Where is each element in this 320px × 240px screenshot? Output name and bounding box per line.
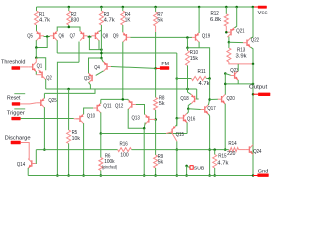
svg-text:4.7k: 4.7k (104, 18, 115, 24)
svg-text:Q9: Q9 (113, 34, 119, 40)
svg-text:Q4: Q4 (94, 65, 100, 71)
transistor Q7 (83, 33, 85, 39)
pin Trigger (14, 108, 25, 110)
wire Q17 emitter up (208, 100, 209, 106)
resistor R4 (122, 7, 124, 11)
wire Q8 collector (98, 40, 100, 49)
transistor Q12 (131, 101, 133, 107)
pin FM (154, 67, 157, 70)
wire trigger to flipflop link (43, 119, 45, 150)
resistor R13 (228, 42, 230, 48)
transistor Q17 (204, 106, 206, 112)
resistor R9 (155, 120, 157, 156)
wire Q16 collector down (186, 122, 188, 133)
svg-text:Q3: Q3 (84, 76, 90, 82)
svg-text:5k: 5k (157, 18, 163, 24)
pin Vcc (258, 6, 267, 9)
svg-text:Q25: Q25 (48, 98, 56, 104)
svg-text:Q16: Q16 (187, 117, 195, 123)
svg-text:R11: R11 (198, 69, 206, 75)
resistor R12 (225, 7, 227, 14)
svg-text:830: 830 (71, 18, 79, 24)
transistor Q4 (106, 63, 108, 69)
svg-text:Q21: Q21 (236, 29, 244, 35)
resistor R11 (177, 78, 192, 80)
wire Q10 emitter to Q11 base (84, 108, 94, 114)
wire Q16 emitter up (187, 109, 188, 114)
svg-text:Trigger: Trigger (7, 110, 25, 116)
wire Q3 collector down (89, 82, 91, 89)
junction rail (154, 6, 157, 9)
wire Q12 collector down (128, 109, 144, 128)
resistor R7 (155, 7, 157, 12)
svg-text:R16: R16 (120, 141, 128, 147)
wire Q13 base to ref (153, 118, 156, 120)
pin SUB (185, 165, 188, 168)
wire Q14 emitter to rail (27, 168, 29, 176)
svg-text:5k: 5k (159, 101, 165, 107)
transistor Q2 (41, 72, 43, 78)
wire Q2 emitter feed (36, 58, 45, 71)
wire Q2 collector down (45, 79, 47, 89)
transistor Q5 (39, 33, 41, 39)
wire Q22 emitter down (251, 47, 253, 64)
wire Q23 emitter (237, 64, 239, 71)
resistor R5 (68, 89, 70, 130)
svg-text:Q13: Q13 (132, 116, 140, 122)
svg-text:Q20: Q20 (227, 96, 235, 102)
svg-text:Q2: Q2 (46, 76, 52, 82)
resistor R6 (100, 134, 102, 158)
svg-text:Q8: Q8 (103, 34, 109, 40)
junction rail (225, 6, 228, 9)
wire trigger row (21, 118, 74, 120)
svg-text:Q19: Q19 (202, 33, 210, 39)
wire Q21 collector node (228, 37, 230, 43)
wire R3 to ref node (100, 50, 102, 58)
transistor Q13 (148, 116, 150, 122)
transistor Q10 (79, 116, 81, 122)
wire R2 to emitters (57, 27, 80, 31)
svg-text:4.7k: 4.7k (217, 161, 228, 167)
wire Q11 collector down (100, 112, 102, 133)
wire threshold column (35, 48, 37, 58)
transistor Q24 (248, 146, 250, 152)
wire Q20 emitter up (224, 94, 226, 96)
svg-text:Q24: Q24 (253, 149, 261, 155)
resistor R1 (36, 7, 38, 11)
wire Q11 emitter up (100, 99, 102, 103)
svg-text:Q12: Q12 (115, 103, 123, 109)
junction rail (122, 6, 125, 9)
transistor Q25 (40, 100, 42, 106)
wire Q4 emitter up (102, 58, 104, 62)
svg-text:3.9k: 3.9k (236, 53, 247, 59)
svg-text:R15: R15 (218, 154, 226, 160)
pin Output (252, 93, 255, 96)
transistor Q15 base lead (166, 132, 172, 134)
wire Q16 base (177, 117, 180, 119)
svg-text:Q1: Q1 (37, 63, 43, 69)
wire output row (225, 83, 253, 85)
wire Q19 emitter (198, 7, 200, 33)
svg-text:10k: 10k (72, 136, 81, 142)
svg-text:Q22: Q22 (251, 38, 259, 44)
node trigger ref (154, 118, 157, 121)
wire Q24 emitter (252, 144, 254, 146)
transistor Q22 (246, 40, 248, 46)
svg-text:R14: R14 (228, 141, 236, 147)
svg-text:Q10: Q10 (87, 113, 95, 119)
wire Q15 base row (101, 133, 187, 135)
wire Q24 collector (252, 153, 254, 155)
wire Q21 emitter up (235, 7, 237, 28)
svg-text:4.7k: 4.7k (39, 18, 50, 24)
svg-text:Discharge: Discharge (5, 135, 31, 141)
svg-text:Q15: Q15 (176, 132, 184, 138)
wire Q25 collector up (43, 94, 45, 99)
svg-text:6.8k: 6.8k (210, 17, 221, 23)
wire Q1 collector to Q2 base (35, 71, 37, 74)
transistor Q16 (183, 115, 185, 121)
wire base column down (89, 37, 101, 50)
wire Q17 base row (188, 108, 201, 111)
wire column to ground rail (176, 150, 178, 176)
junction rail (100, 6, 103, 9)
node Q5 base tie (44, 36, 51, 38)
wire Q18 collector (188, 103, 191, 108)
svg-text:SUB: SUB (194, 166, 204, 172)
wire Q10 collector rail (83, 123, 85, 175)
wire Q20 collector down (224, 104, 226, 150)
wire Q7 collector (78, 42, 80, 63)
svg-text:Q14: Q14 (17, 162, 25, 168)
transistor Q1 (32, 64, 34, 70)
svg-text:Q7: Q7 (70, 33, 76, 39)
wire Q5 collector (35, 40, 37, 47)
wire Q17 collector column (208, 114, 209, 176)
wire Q23 base rail (224, 74, 226, 95)
junction rail (252, 6, 255, 9)
transistor Q19 (195, 34, 197, 40)
wire R10 top (186, 38, 188, 48)
pin Reset (14, 93, 25, 95)
wire comparator bus (57, 52, 177, 54)
transistor Q8 (94, 33, 96, 39)
wire Q4 base row to FM (111, 67, 156, 69)
transistor Q18 (194, 96, 196, 102)
svg-text:Q17: Q17 (207, 106, 215, 112)
wire Q8 emitter to R3 (99, 30, 101, 31)
node Q23 base (224, 72, 227, 75)
node Q7 Q8 bases (87, 36, 92, 38)
wire comparator ref node (89, 58, 102, 74)
resistor R16 (118, 148, 132, 152)
wire Q9 collector column (122, 42, 124, 100)
wire Q25 emitter down (43, 107, 45, 118)
wire Q12 emitter up (127, 99, 129, 100)
wire Q19 collector (198, 42, 200, 48)
svg-text:Q5: Q5 (27, 33, 33, 39)
svg-text:Q18: Q18 (180, 96, 188, 102)
transistor Q3 (91, 75, 93, 81)
resistor R14 (225, 149, 229, 151)
transistor Q21 (230, 29, 232, 35)
wire Q15 emitter to Q16 base node (176, 118, 177, 126)
svg-text:15k: 15k (190, 56, 199, 62)
wire mirror row (57, 62, 79, 175)
resistor R8 (155, 68, 157, 97)
transistor Q20 (221, 96, 223, 102)
wire output rail (252, 64, 254, 176)
transistor Q15 (171, 129, 173, 134)
resistor R2 (68, 7, 70, 11)
wire R11 col down (209, 79, 211, 100)
wire Q20 base (210, 98, 218, 100)
transistor Q23 (234, 72, 236, 78)
svg-text:5k: 5k (158, 160, 164, 166)
svg-text:Q23: Q23 (230, 68, 238, 74)
svg-text:1K: 1K (125, 18, 131, 24)
junction rail (68, 6, 71, 9)
svg-text:Vcc: Vcc (258, 10, 269, 16)
transistor Q11 (96, 105, 98, 111)
node Q19 base (187, 36, 192, 38)
svg-text:220: 220 (227, 151, 235, 157)
transistor Q9 (125, 34, 127, 40)
wire ground rail (28, 175, 253, 177)
resistor R10 (186, 51, 190, 66)
resistor R15 (213, 148, 216, 151)
wire Q6 collector to bus (56, 40, 58, 53)
wire flipflop row (46, 88, 197, 90)
wire Q12 base to Q13 emitter (136, 105, 145, 115)
wire Q22 collector up (251, 7, 253, 38)
svg-text:4.7k: 4.7k (199, 81, 210, 87)
transistor Q6 (53, 33, 55, 39)
resistor R3 (100, 7, 102, 11)
wire Q9 base row to Q19 (130, 36, 187, 38)
wire flipflop output row (36, 149, 117, 151)
wire Q23 collector (237, 80, 239, 84)
wire Q15 collector down (176, 141, 178, 149)
wire Q13 collector (144, 122, 145, 128)
wire Q13 col to rail (143, 128, 145, 175)
transistor Q14 (31, 160, 33, 166)
wire Q18 base corner (197, 89, 199, 99)
wire pair emitter row (101, 98, 128, 100)
wire Q18 emitter link (188, 89, 192, 94)
svg-text:(pinched): (pinched) (102, 164, 118, 169)
junction rail (198, 6, 201, 9)
svg-text:Threshold: Threshold (1, 60, 25, 66)
svg-text:100: 100 (120, 153, 128, 159)
svg-text:Q11: Q11 (103, 104, 111, 110)
wire Q4 collector to Q3 (96, 71, 104, 76)
wire Vcc rail (37, 6, 258, 8)
svg-text:Q6: Q6 (59, 33, 65, 39)
node R11 left (176, 77, 179, 80)
svg-text:Output: Output (249, 84, 268, 90)
wire Q14 base up (35, 150, 38, 164)
junction rail (235, 6, 238, 9)
wire collector row right (188, 48, 210, 79)
wire Q25 collector row (44, 89, 95, 93)
wire Q22 base (229, 41, 243, 43)
wire bus corner down (176, 53, 178, 126)
svg-text:Reset: Reset (7, 96, 21, 102)
